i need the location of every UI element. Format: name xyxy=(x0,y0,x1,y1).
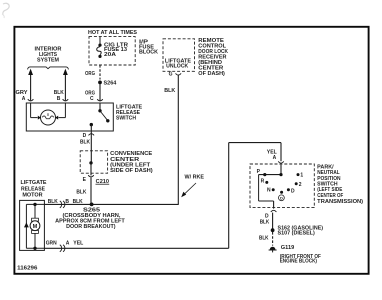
svg-text:2: 2 xyxy=(299,182,302,188)
svg-text:SWITCH: SWITCH xyxy=(116,116,136,122)
svg-text:BLK: BLK xyxy=(48,199,58,205)
junction dot in convenience center xyxy=(89,161,92,164)
wire BLK to S162 xyxy=(272,213,274,229)
svg-text:BLK: BLK xyxy=(164,88,175,94)
wire GRN A YEL from motor xyxy=(44,247,228,249)
splice S265 xyxy=(90,203,94,207)
wire BLK E to S265 xyxy=(90,178,92,205)
svg-text:ORG: ORG xyxy=(85,71,95,77)
svg-text:R: R xyxy=(261,178,265,184)
svg-text:G119: G119 xyxy=(281,245,295,251)
svg-text:A: A xyxy=(22,96,26,102)
svg-text:GRY: GRY xyxy=(16,90,29,96)
outer border frame xyxy=(14,27,368,274)
svg-text:S107 (DIESEL): S107 (DIESEL) xyxy=(278,231,316,237)
wire BLK up to receiver G xyxy=(177,75,179,205)
park/neutral position switch dashed box xyxy=(250,164,314,208)
terminal A hook on PNP switch xyxy=(278,161,284,163)
svg-text:D: D xyxy=(280,196,283,201)
svg-text:N: N xyxy=(267,188,271,194)
terminal D below PNP xyxy=(271,210,277,212)
svg-text:HOT AT ALL TIMES: HOT AT ALL TIMES xyxy=(88,30,138,36)
switch contacts xyxy=(99,103,101,110)
wire YEL up and across to PNP switch xyxy=(228,143,230,249)
inline connector xyxy=(60,245,65,252)
motor M xyxy=(32,218,39,221)
liftgate release motor box xyxy=(20,200,45,250)
faint scan artifact top-left xyxy=(3,3,9,15)
wire ORG S264 to switch C xyxy=(99,84,101,101)
convenience center dashed box xyxy=(80,151,107,173)
svg-text:BLK: BLK xyxy=(76,190,86,196)
splice S264 xyxy=(98,81,102,85)
horizontal wire BLK to receiver xyxy=(44,203,178,205)
terminal A hook xyxy=(28,99,34,101)
svg-text:OF DASH): OF DASH) xyxy=(198,71,225,77)
svg-text:BLK: BLK xyxy=(80,139,90,145)
ground G119 xyxy=(270,247,276,250)
svg-text:A: A xyxy=(273,155,277,161)
inline connector xyxy=(60,201,65,208)
svg-text:C: C xyxy=(90,96,94,102)
bracket under system label xyxy=(28,67,69,70)
svg-text:BLOCK: BLOCK xyxy=(139,49,158,55)
svg-text:YEL: YEL xyxy=(73,241,83,247)
svg-text:SYSTEM: SYSTEM xyxy=(37,58,59,64)
terminal E / connector C210 xyxy=(88,175,94,177)
remote control door lock receiver dashed box xyxy=(163,39,195,72)
svg-text:A: A xyxy=(66,241,70,247)
svg-text:UNLOCK: UNLOCK xyxy=(166,64,188,70)
svg-text:W/ RKE: W/ RKE xyxy=(185,174,205,180)
lamp (switch illumination) xyxy=(31,103,66,125)
svg-text:B: B xyxy=(57,96,61,102)
drive direction arrow xyxy=(24,222,29,227)
svg-text:116296: 116296 xyxy=(17,265,37,271)
svg-text:S264: S264 xyxy=(104,80,117,86)
svg-text:D: D xyxy=(291,188,295,194)
svg-text:LIFTGATE: LIFTGATE xyxy=(21,180,48,186)
svg-text:BLK: BLK xyxy=(259,235,269,241)
terminal B hook xyxy=(63,99,69,101)
splice S162 xyxy=(271,228,275,232)
wire BLK dashed to ground xyxy=(272,232,274,246)
svg-text:SIDE OF DASH): SIDE OF DASH) xyxy=(110,168,153,174)
wire ORG fuse to S264 (dashed section) xyxy=(99,65,101,80)
wire to interior lights A (arrow up) xyxy=(30,74,32,101)
wire to interior lights B (arrow up) xyxy=(64,74,66,101)
I/P fuse block dashed box xyxy=(89,37,135,65)
svg-text:D: D xyxy=(83,133,87,139)
svg-text:BLK: BLK xyxy=(73,199,83,205)
svg-text:M: M xyxy=(33,224,38,230)
svg-text:20A: 20A xyxy=(104,52,116,58)
svg-text:1: 1 xyxy=(300,172,303,178)
motor internal wiring xyxy=(26,204,44,248)
fuse CIG LTR FUSE 13 20A xyxy=(97,37,102,55)
terminal G xyxy=(176,73,182,75)
svg-text:GRN: GRN xyxy=(46,241,57,247)
svg-text:DOOR BREAKOUT): DOOR BREAKOUT) xyxy=(66,224,116,230)
svg-text:MOTOR: MOTOR xyxy=(22,192,43,198)
svg-text:G: G xyxy=(169,72,173,78)
liftgate release switch box xyxy=(26,103,113,131)
svg-text:B: B xyxy=(65,199,69,205)
svg-text:D: D xyxy=(265,213,269,219)
PNP internal contacts xyxy=(280,165,282,175)
svg-text:BLK: BLK xyxy=(260,220,270,226)
terminal D and wire BLK down xyxy=(89,134,95,136)
svg-text:TRANSMISSION): TRANSMISSION) xyxy=(317,199,363,205)
svg-text:ENGINE BLOCK): ENGINE BLOCK) xyxy=(280,259,318,265)
svg-text:BLK: BLK xyxy=(54,90,64,96)
